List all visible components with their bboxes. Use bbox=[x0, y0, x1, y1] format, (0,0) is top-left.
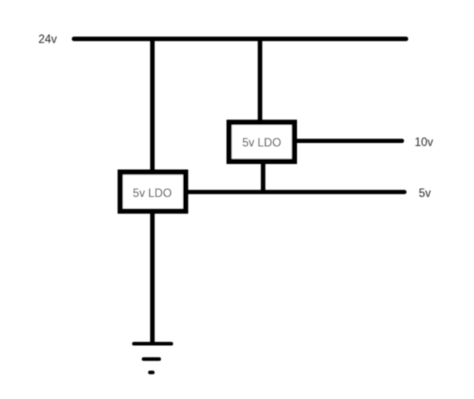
svg-text:5v: 5v bbox=[419, 188, 431, 200]
svg-text:5v LDO: 5v LDO bbox=[133, 188, 172, 200]
svg-text:10v: 10v bbox=[415, 137, 434, 149]
svg-text:5v LDO: 5v LDO bbox=[242, 137, 281, 149]
svg-text:24v: 24v bbox=[38, 34, 57, 46]
